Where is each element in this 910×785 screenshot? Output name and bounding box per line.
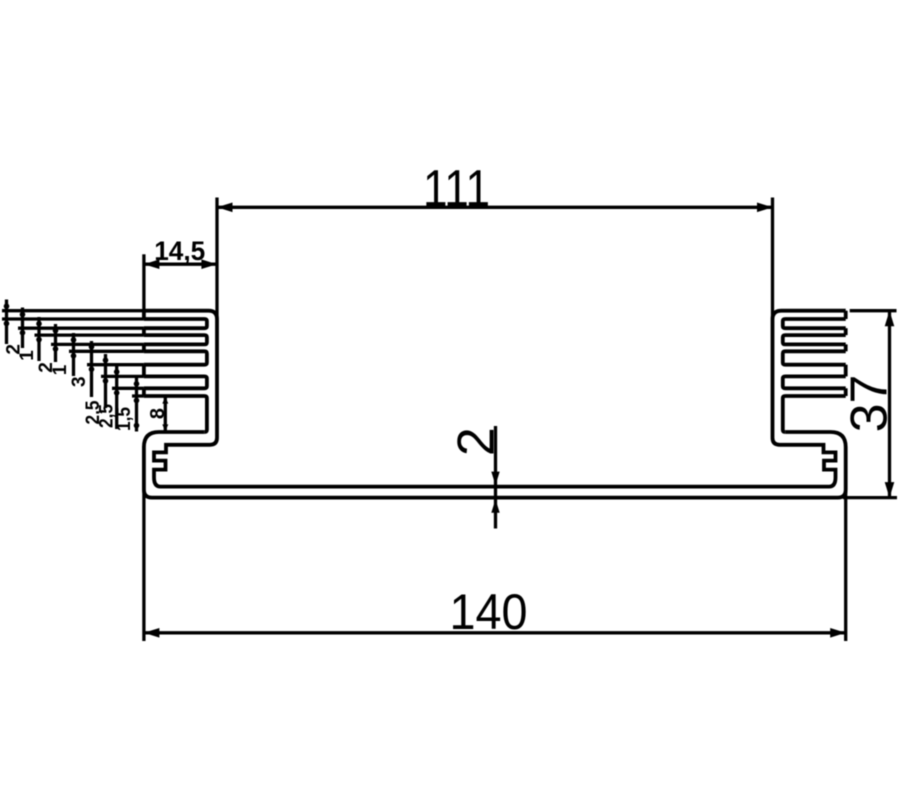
cascade dim line 1 [5, 300, 8, 345]
extrusion outer bottom boundary: slot5 lips, outer faces, bottom wall [144, 432, 846, 498]
cascade dim line 6 [90, 341, 93, 397]
extrusion interior boundary: top edge, channel walls, ledges, screw-jaws, floor [144, 311, 846, 487]
right wall heatsink slots (open right, closed left) [783, 319, 846, 328]
dim 111 extension lines [215, 198, 218, 320]
dim 2 line [494, 426, 497, 529]
dim 14,5 line [144, 263, 217, 266]
svg-text:3: 3 [69, 376, 90, 387]
cascade dim line 9 [135, 378, 138, 432]
cascade dim line 5 [72, 333, 75, 376]
right wall fin tips [844, 311, 848, 319]
svg-text:1: 1 [50, 364, 71, 375]
cascade extension lines (fin edges extended left) [2, 309, 144, 312]
svg-text:111: 111 [423, 160, 490, 218]
dim 37 line [888, 311, 891, 498]
dim 111 line [217, 206, 773, 209]
cascade dim line 2 [21, 308, 24, 349]
dim 140 extension lines [142, 446, 145, 641]
left wall fin tips [142, 311, 146, 319]
svg-text:14,5: 14,5 [154, 236, 205, 266]
dim 14,5 extension line [142, 254, 145, 310]
svg-text:1,5: 1,5 [114, 407, 135, 431]
dim 37 extension lines [850, 309, 897, 312]
svg-text:140: 140 [450, 584, 528, 640]
svg-text:1: 1 [17, 350, 38, 361]
cascade dim line 3 [37, 317, 40, 361]
cascade dim line 7 [104, 354, 107, 408]
svg-text:2: 2 [447, 427, 505, 456]
cascade dim line 8 [115, 366, 118, 429]
cascade dim line 4 [54, 324, 57, 362]
svg-text:8: 8 [147, 408, 169, 419]
left wall heatsink slots (open left, closed right) [144, 319, 207, 328]
dim 140 line [144, 631, 846, 634]
dim 8 line [164, 396, 167, 432]
svg-text:37: 37 [840, 375, 898, 433]
